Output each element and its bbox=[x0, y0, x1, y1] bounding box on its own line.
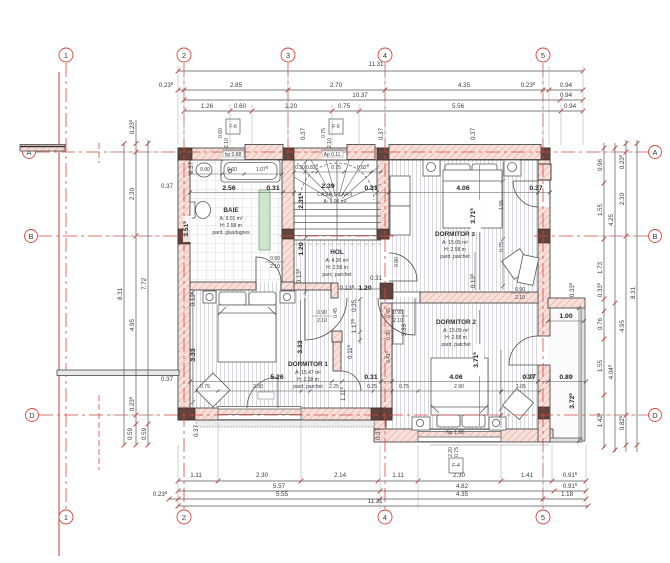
F-6 box left bbox=[226, 119, 240, 134]
svg-text:1.20: 1.20 bbox=[298, 242, 305, 255]
column bottom-left corner bbox=[178, 408, 195, 420]
window top BAIE opening bbox=[222, 150, 245, 160]
left chain 8.31 bbox=[123, 143, 125, 446]
svg-text:5.57: 5.57 bbox=[273, 483, 286, 490]
bubble B right bbox=[649, 230, 662, 243]
svg-text:5.26: 5.26 bbox=[270, 374, 283, 381]
wall D3-D2 divider bbox=[420, 292, 538, 303]
floor DORMITOR 3 parquet bbox=[389, 154, 538, 292]
wall hall left V3 step bbox=[332, 331, 342, 342]
bubble D right bbox=[649, 409, 662, 422]
floor HOL parquet bbox=[294, 240, 381, 298]
svg-text:0.30: 0.30 bbox=[295, 165, 305, 171]
door D2 leaf+arc bbox=[378, 298, 415, 335]
D1 door tag bbox=[258, 392, 274, 399]
svg-text:0.31: 0.31 bbox=[370, 275, 383, 282]
door D1 leaf+arc bbox=[305, 298, 347, 340]
floor lower hall parquet bbox=[338, 298, 381, 412]
top chain row1 11.31 bbox=[178, 70, 583, 72]
bubble 2 bottom bbox=[177, 510, 191, 524]
svg-text:0.37: 0.37 bbox=[470, 127, 477, 140]
svg-text:4: 4 bbox=[383, 513, 387, 522]
svg-text:4.25: 4.25 bbox=[608, 213, 615, 226]
interior small dim row lower bbox=[196, 390, 540, 392]
wall exterior top bbox=[178, 148, 550, 160]
svg-text:B: B bbox=[652, 232, 657, 241]
interior dim vlines 3.71 bbox=[479, 165, 481, 290]
floor balcony right bbox=[548, 308, 582, 441]
svg-text:parc. parchet: parc. parchet bbox=[322, 272, 352, 278]
svg-text:A: A bbox=[652, 148, 657, 157]
door opening right wall D3 bbox=[539, 181, 550, 207]
svg-text:F-6: F-6 bbox=[229, 124, 237, 130]
svg-text:A: 4.30 m²: A: 4.30 m² bbox=[325, 258, 348, 264]
svg-text:hp 0.88: hp 0.88 bbox=[225, 152, 242, 158]
column right wall row B bbox=[538, 229, 550, 243]
svg-text:0.94: 0.94 bbox=[560, 92, 573, 99]
D2 dresser left bbox=[393, 310, 403, 344]
door D3 right wall leaf+arc bbox=[513, 181, 538, 207]
lintel band BAIE bbox=[245, 145, 283, 160]
floor DORMITOR 2 parquet bbox=[392, 297, 538, 429]
svg-text:pard. parchet: pard. parchet bbox=[440, 254, 470, 260]
svg-text:2.10: 2.10 bbox=[515, 295, 525, 301]
column bottom wall mid bbox=[371, 408, 386, 420]
D3 armchair diamond bbox=[502, 249, 533, 280]
floor BAIE tiles bbox=[184, 154, 282, 282]
door balcony leaf+arc bbox=[509, 336, 538, 365]
stair bottom edge bbox=[294, 239, 381, 241]
svg-text:0.90: 0.90 bbox=[270, 256, 280, 262]
F-6 box right bbox=[329, 119, 343, 134]
column left wall row B bbox=[178, 229, 190, 244]
svg-text:1.55: 1.55 bbox=[499, 200, 505, 210]
svg-text:0.31: 0.31 bbox=[266, 185, 279, 192]
svg-text:DORMITOR 2: DORMITOR 2 bbox=[436, 319, 476, 326]
svg-text:2.10: 2.10 bbox=[317, 318, 327, 324]
svg-text:4.95: 4.95 bbox=[619, 319, 626, 332]
short red dash x99 top bbox=[98, 143, 100, 163]
wall step bottom middle bbox=[374, 420, 386, 431]
svg-text:2.85: 2.85 bbox=[230, 82, 243, 89]
svg-text:4.82: 4.82 bbox=[456, 483, 469, 490]
D2 nightstand left bbox=[412, 417, 430, 430]
svg-text:0.75: 0.75 bbox=[200, 384, 210, 390]
thin divider D3-D2 west part bbox=[392, 292, 420, 303]
floor stairwell bbox=[294, 160, 381, 240]
svg-text:pard. patchet: pard. patchet bbox=[441, 342, 471, 348]
svg-text:2.90: 2.90 bbox=[454, 384, 464, 390]
svg-text:0.60: 0.60 bbox=[234, 103, 247, 110]
svg-text:0.37: 0.37 bbox=[375, 427, 382, 440]
svg-text:0.90: 0.90 bbox=[317, 310, 327, 316]
bubble 4 top bbox=[378, 48, 392, 62]
bubble 2 top bbox=[177, 48, 191, 62]
D2 nightstand right bbox=[489, 417, 506, 430]
D1 bed bbox=[218, 305, 276, 362]
svg-text:0.37: 0.37 bbox=[529, 185, 542, 192]
svg-text:4.95: 4.95 bbox=[129, 318, 136, 331]
column top-right corner bbox=[537, 148, 550, 160]
svg-text:0.75: 0.75 bbox=[338, 103, 351, 110]
svg-text:2.30: 2.30 bbox=[129, 187, 136, 200]
tiny door size labels bbox=[265, 261, 285, 263]
grid line 4 vertical bbox=[384, 63, 386, 509]
column top-left corner bbox=[178, 148, 192, 160]
grid line 5 vertical bbox=[542, 63, 544, 509]
lintel band D3 bbox=[389, 145, 541, 160]
svg-text:5: 5 bbox=[541, 513, 545, 522]
interior vertical dim line D3 right bbox=[193, 162, 503, 428]
D1 terrace door leaf+arc bbox=[247, 377, 278, 408]
svg-text:1: 1 bbox=[64, 51, 68, 60]
svg-text:1.05: 1.05 bbox=[516, 384, 526, 390]
svg-text:1.41: 1.41 bbox=[521, 472, 534, 479]
extension lines bottom extra bbox=[218, 104, 561, 483]
bubble 4 bottom bbox=[378, 510, 392, 524]
balcony parapet vertical bbox=[581, 308, 585, 441]
svg-text:2.10: 2.10 bbox=[270, 264, 280, 270]
left chain 7.72 bbox=[147, 140, 149, 446]
svg-text:2.25: 2.25 bbox=[329, 384, 339, 390]
bubble 1 bottom bbox=[59, 510, 73, 524]
svg-text:0.89: 0.89 bbox=[559, 374, 572, 381]
terrace sill band bottom-left bbox=[196, 421, 374, 428]
grid line 1 vertical bbox=[65, 63, 67, 509]
svg-text:0.37: 0.37 bbox=[526, 374, 536, 380]
wall stair left V1 bbox=[282, 160, 294, 282]
svg-text:A: 15.47 m²: A: 15.47 m² bbox=[295, 370, 321, 376]
property line left vertical solid red bbox=[58, 72, 60, 556]
svg-text:0.37: 0.37 bbox=[300, 127, 307, 140]
svg-text:D: D bbox=[652, 411, 658, 420]
wall exterior bottom left bbox=[178, 408, 386, 420]
wall HOL south bbox=[294, 283, 331, 290]
svg-text:pard. parchet: pard. parchet bbox=[293, 384, 323, 390]
svg-text:0.94: 0.94 bbox=[564, 103, 577, 110]
svg-text:0.30: 0.30 bbox=[386, 330, 392, 340]
svg-text:4.06: 4.06 bbox=[449, 374, 462, 381]
window bottom DORMITOR 2 bbox=[418, 429, 501, 442]
svg-text:0.59: 0.59 bbox=[127, 427, 134, 440]
svg-text:10.37: 10.37 bbox=[352, 92, 368, 99]
svg-text:A: 9.01 m²: A: 9.01 m² bbox=[219, 216, 242, 222]
svg-text:CASA SCARII: CASA SCARII bbox=[317, 192, 353, 198]
svg-text:H: 2.58 m: H: 2.58 m bbox=[297, 377, 319, 383]
svg-text:0.75: 0.75 bbox=[499, 242, 505, 252]
bubble D left bbox=[26, 409, 39, 422]
svg-text:H: 2.58 m: H: 2.58 m bbox=[326, 265, 348, 271]
svg-text:2.70: 2.70 bbox=[330, 82, 343, 89]
stair center stringer bbox=[336, 160, 338, 240]
svg-text:1.11: 1.11 bbox=[392, 472, 404, 479]
grid line B horizontal bbox=[38, 235, 192, 237]
column V1 bottom bbox=[282, 229, 294, 239]
balcony dim 3.72 bbox=[578, 308, 580, 441]
svg-text:4.35: 4.35 bbox=[456, 491, 469, 498]
wall BAIE-D1 east piece bbox=[281, 282, 294, 290]
window top stair opening bbox=[321, 150, 347, 160]
top chain row3 10.37 bbox=[184, 99, 583, 101]
axis grid group bbox=[36, 63, 648, 556]
right chain 8.31 bbox=[636, 140, 638, 452]
right chain mid1 bbox=[614, 143, 616, 452]
D1 pillow left bbox=[219, 292, 246, 305]
svg-text:8.31: 8.31 bbox=[117, 287, 124, 300]
svg-text:0.76: 0.76 bbox=[597, 317, 604, 330]
svg-text:2.30: 2.30 bbox=[253, 384, 263, 390]
door threshold line HOL bbox=[338, 288, 380, 290]
svg-text:1.73: 1.73 bbox=[597, 261, 604, 274]
svg-text:7.72: 7.72 bbox=[141, 277, 148, 290]
svg-text:5.56: 5.56 bbox=[452, 103, 465, 110]
door hall lower arc bbox=[341, 371, 361, 391]
top chain row2 bbox=[178, 89, 583, 91]
svg-text:2.56: 2.56 bbox=[222, 185, 235, 192]
svg-text:0.60: 0.60 bbox=[227, 167, 237, 173]
svg-text:H: 2.58 m: H: 2.58 m bbox=[220, 223, 242, 229]
svg-text:5.55: 5.55 bbox=[276, 491, 289, 498]
washbasin bbox=[196, 163, 212, 177]
bubble A right bbox=[649, 146, 662, 159]
svg-text:4.35: 4.35 bbox=[458, 82, 471, 89]
window bottom DORMITOR 1 bbox=[218, 406, 301, 420]
bubble 3 top bbox=[281, 48, 295, 62]
BAIE window dim row bbox=[190, 173, 282, 175]
svg-text:2: 2 bbox=[182, 513, 186, 522]
svg-text:4.06: 4.06 bbox=[456, 185, 469, 192]
bottom chain row3 bbox=[169, 498, 586, 500]
top chain row4 bbox=[184, 110, 583, 112]
stairs dim row bbox=[294, 171, 381, 173]
bubble 5 bottom bbox=[536, 510, 550, 524]
door D3 hall leaf+arc bbox=[389, 253, 417, 281]
bottom chain row1 bbox=[178, 480, 586, 482]
stair winder radial lines bbox=[294, 160, 381, 200]
svg-text:Ap 0.11: Ap 0.11 bbox=[324, 152, 341, 158]
stair walk line bbox=[300, 163, 374, 200]
D1 nightstand left bbox=[203, 291, 216, 303]
D3 wardrobe left bbox=[390, 176, 410, 206]
bottom chain row2 bbox=[178, 490, 586, 492]
right chain mid2 bbox=[625, 140, 627, 452]
grid line 3 vertical bbox=[287, 63, 289, 160]
svg-text:1: 1 bbox=[64, 513, 68, 522]
D3 nightstand right bbox=[504, 160, 521, 176]
svg-text:Np 1.38: Np 1.38 bbox=[446, 430, 464, 436]
wall exterior right upper bbox=[538, 148, 550, 336]
svg-text:H: 2.58 m: H: 2.58 m bbox=[445, 335, 467, 341]
bubble 5 top bbox=[536, 48, 550, 62]
svg-text:0.75: 0.75 bbox=[454, 447, 460, 457]
svg-text:A: 15.09 m²: A: 15.09 m² bbox=[442, 240, 468, 246]
D3 closet right bbox=[517, 255, 538, 286]
svg-text:2.10: 2.10 bbox=[393, 318, 403, 324]
svg-text:0.90: 0.90 bbox=[394, 257, 400, 267]
svg-text:1.26: 1.26 bbox=[201, 103, 214, 110]
svg-text:0.75: 0.75 bbox=[399, 384, 409, 390]
svg-text:DORMITOR 3: DORMITOR 3 bbox=[435, 231, 475, 238]
grid line D horizontal bbox=[39, 414, 648, 416]
interior dim row upper (rooms width) bbox=[190, 192, 550, 194]
svg-text:1.11: 1.11 bbox=[190, 472, 202, 479]
D3 pillow right bbox=[472, 164, 497, 176]
D3 pillow left bbox=[445, 164, 470, 176]
svg-text:0.31: 0.31 bbox=[364, 374, 377, 381]
neighbour wall stub top-left bbox=[20, 145, 65, 152]
svg-text:11.31: 11.31 bbox=[367, 498, 383, 505]
svg-text:1.20: 1.20 bbox=[358, 285, 371, 292]
svg-text:A: 9.06 m²: A: 9.06 m² bbox=[323, 199, 346, 205]
svg-text:2.14: 2.14 bbox=[334, 472, 347, 479]
column V2 bottom bbox=[377, 229, 389, 239]
D3 nightstand left bbox=[423, 160, 440, 176]
lintel tags on top wall bbox=[223, 151, 244, 157]
wall exterior left bbox=[178, 148, 190, 420]
wall hall right V4 bbox=[381, 303, 392, 420]
wall hall left V3 bbox=[333, 342, 341, 371]
svg-text:A: 15.09 m²: A: 15.09 m² bbox=[443, 328, 469, 334]
grid line 2 vertical bbox=[183, 63, 185, 509]
section bar left middle bbox=[57, 370, 179, 376]
D2 bed bbox=[431, 358, 488, 415]
svg-text:F-4: F-4 bbox=[452, 463, 460, 469]
column bottom-right grid5 bbox=[538, 407, 549, 419]
svg-text:4: 4 bbox=[383, 51, 387, 60]
D2 armchair diamond bbox=[503, 389, 534, 420]
bottom chain row4 11.31 bbox=[178, 505, 588, 507]
floor DORMITOR 1 parquet bbox=[190, 282, 332, 408]
svg-text:0.96: 0.96 bbox=[597, 158, 604, 171]
column grid4 top bbox=[377, 148, 389, 160]
svg-text:0.94: 0.94 bbox=[560, 82, 573, 89]
svg-text:0.60: 0.60 bbox=[218, 128, 224, 138]
balcony parapet bottom bbox=[550, 438, 582, 442]
short red dash x99 bottom bbox=[98, 395, 100, 470]
svg-text:3.33: 3.33 bbox=[190, 348, 197, 361]
D1 pillow right bbox=[249, 292, 276, 305]
D1 nightstand right bbox=[280, 291, 295, 303]
svg-text:3.33: 3.33 bbox=[401, 323, 408, 336]
svg-text:0.75: 0.75 bbox=[331, 165, 341, 171]
wall niche band right bbox=[548, 298, 585, 308]
D2 pillow right bbox=[462, 415, 485, 427]
stair break dashed line bbox=[294, 243, 381, 245]
svg-text:0.90: 0.90 bbox=[393, 310, 403, 316]
stair treads straight bbox=[294, 203, 381, 236]
svg-text:11.31: 11.31 bbox=[368, 61, 384, 68]
svg-text:2.39: 2.39 bbox=[321, 183, 334, 190]
svg-text:2.30: 2.30 bbox=[256, 472, 269, 479]
door BAIE leaf+arc bbox=[256, 257, 281, 282]
bathtub bbox=[221, 160, 280, 182]
left chain inner bbox=[135, 120, 137, 446]
svg-text:1.00: 1.00 bbox=[559, 313, 572, 320]
svg-text:2.20: 2.20 bbox=[285, 103, 298, 110]
svg-text:0.45: 0.45 bbox=[333, 308, 339, 318]
D2 pillow left bbox=[437, 415, 460, 427]
svg-text:1.18: 1.18 bbox=[561, 491, 574, 498]
window box right wall D3 bbox=[538, 164, 551, 180]
bubble A left bbox=[23, 146, 36, 159]
D1 armchair diamond bbox=[196, 373, 230, 407]
svg-text:2.10: 2.10 bbox=[224, 138, 230, 148]
svg-text:0.90: 0.90 bbox=[515, 287, 525, 293]
wall exterior right lower bbox=[538, 365, 550, 442]
column V4 bottom bbox=[381, 408, 392, 420]
wall BAIE-D1 bbox=[190, 282, 256, 290]
svg-text:0.37: 0.37 bbox=[161, 376, 174, 383]
wall stair right V2 bbox=[377, 160, 389, 239]
sill line below bottom-right wall bbox=[430, 444, 549, 446]
F-4 box bottom bbox=[449, 458, 463, 473]
toilet bowl bbox=[196, 202, 211, 219]
svg-text:0.45: 0.45 bbox=[386, 308, 392, 318]
svg-text:pard. glasdagres: pard. glasdagres bbox=[212, 230, 250, 236]
toilet tank bbox=[190, 202, 195, 218]
bubble 1 top bbox=[59, 48, 73, 62]
svg-text:F-6: F-6 bbox=[332, 124, 340, 130]
lintel band stairs bbox=[347, 145, 375, 160]
svg-text:BAIE: BAIE bbox=[223, 207, 239, 214]
interior dim row lower (rooms width) bbox=[190, 381, 586, 383]
bubble B left bbox=[25, 230, 38, 243]
svg-text:0.31: 0.31 bbox=[364, 185, 377, 192]
svg-text:0.35,: 0.35, bbox=[351, 298, 358, 312]
svg-text:0.90: 0.90 bbox=[200, 167, 210, 173]
svg-text:2: 2 bbox=[182, 51, 186, 60]
column C5 hall bbox=[380, 283, 393, 299]
right chain inner bbox=[603, 143, 605, 448]
svg-text:0.37: 0.37 bbox=[161, 183, 174, 190]
grid line A horizontal bbox=[36, 151, 648, 153]
svg-text:0.37: 0.37 bbox=[188, 161, 195, 174]
svg-text:2.30: 2.30 bbox=[619, 192, 626, 205]
svg-text:H: 2.58 m: H: 2.58 m bbox=[444, 247, 466, 253]
svg-text:0.37: 0.37 bbox=[378, 127, 385, 140]
svg-text:0.59: 0.59 bbox=[141, 427, 148, 440]
svg-text:0.37: 0.37 bbox=[193, 424, 200, 437]
svg-text:D: D bbox=[29, 411, 35, 420]
svg-text:1.55: 1.55 bbox=[597, 359, 604, 372]
svg-text:5: 5 bbox=[541, 51, 545, 60]
D3 bed bbox=[443, 170, 502, 228]
svg-text:0.25: 0.25 bbox=[367, 384, 377, 390]
shower glass green bbox=[259, 190, 270, 250]
svg-text:3: 3 bbox=[286, 51, 290, 60]
svg-text:B: B bbox=[28, 232, 33, 241]
svg-text:1.55: 1.55 bbox=[597, 203, 604, 216]
column grid3 top bbox=[282, 148, 294, 160]
svg-text:DORMITOR 1: DORMITOR 1 bbox=[288, 361, 328, 368]
svg-text:0.75: 0.75 bbox=[321, 128, 327, 138]
niche dim 1.00 bbox=[548, 320, 584, 322]
svg-text:8.31: 8.31 bbox=[630, 286, 637, 299]
wall exterior bottom right bbox=[374, 429, 553, 442]
svg-text:HOL: HOL bbox=[330, 249, 344, 256]
